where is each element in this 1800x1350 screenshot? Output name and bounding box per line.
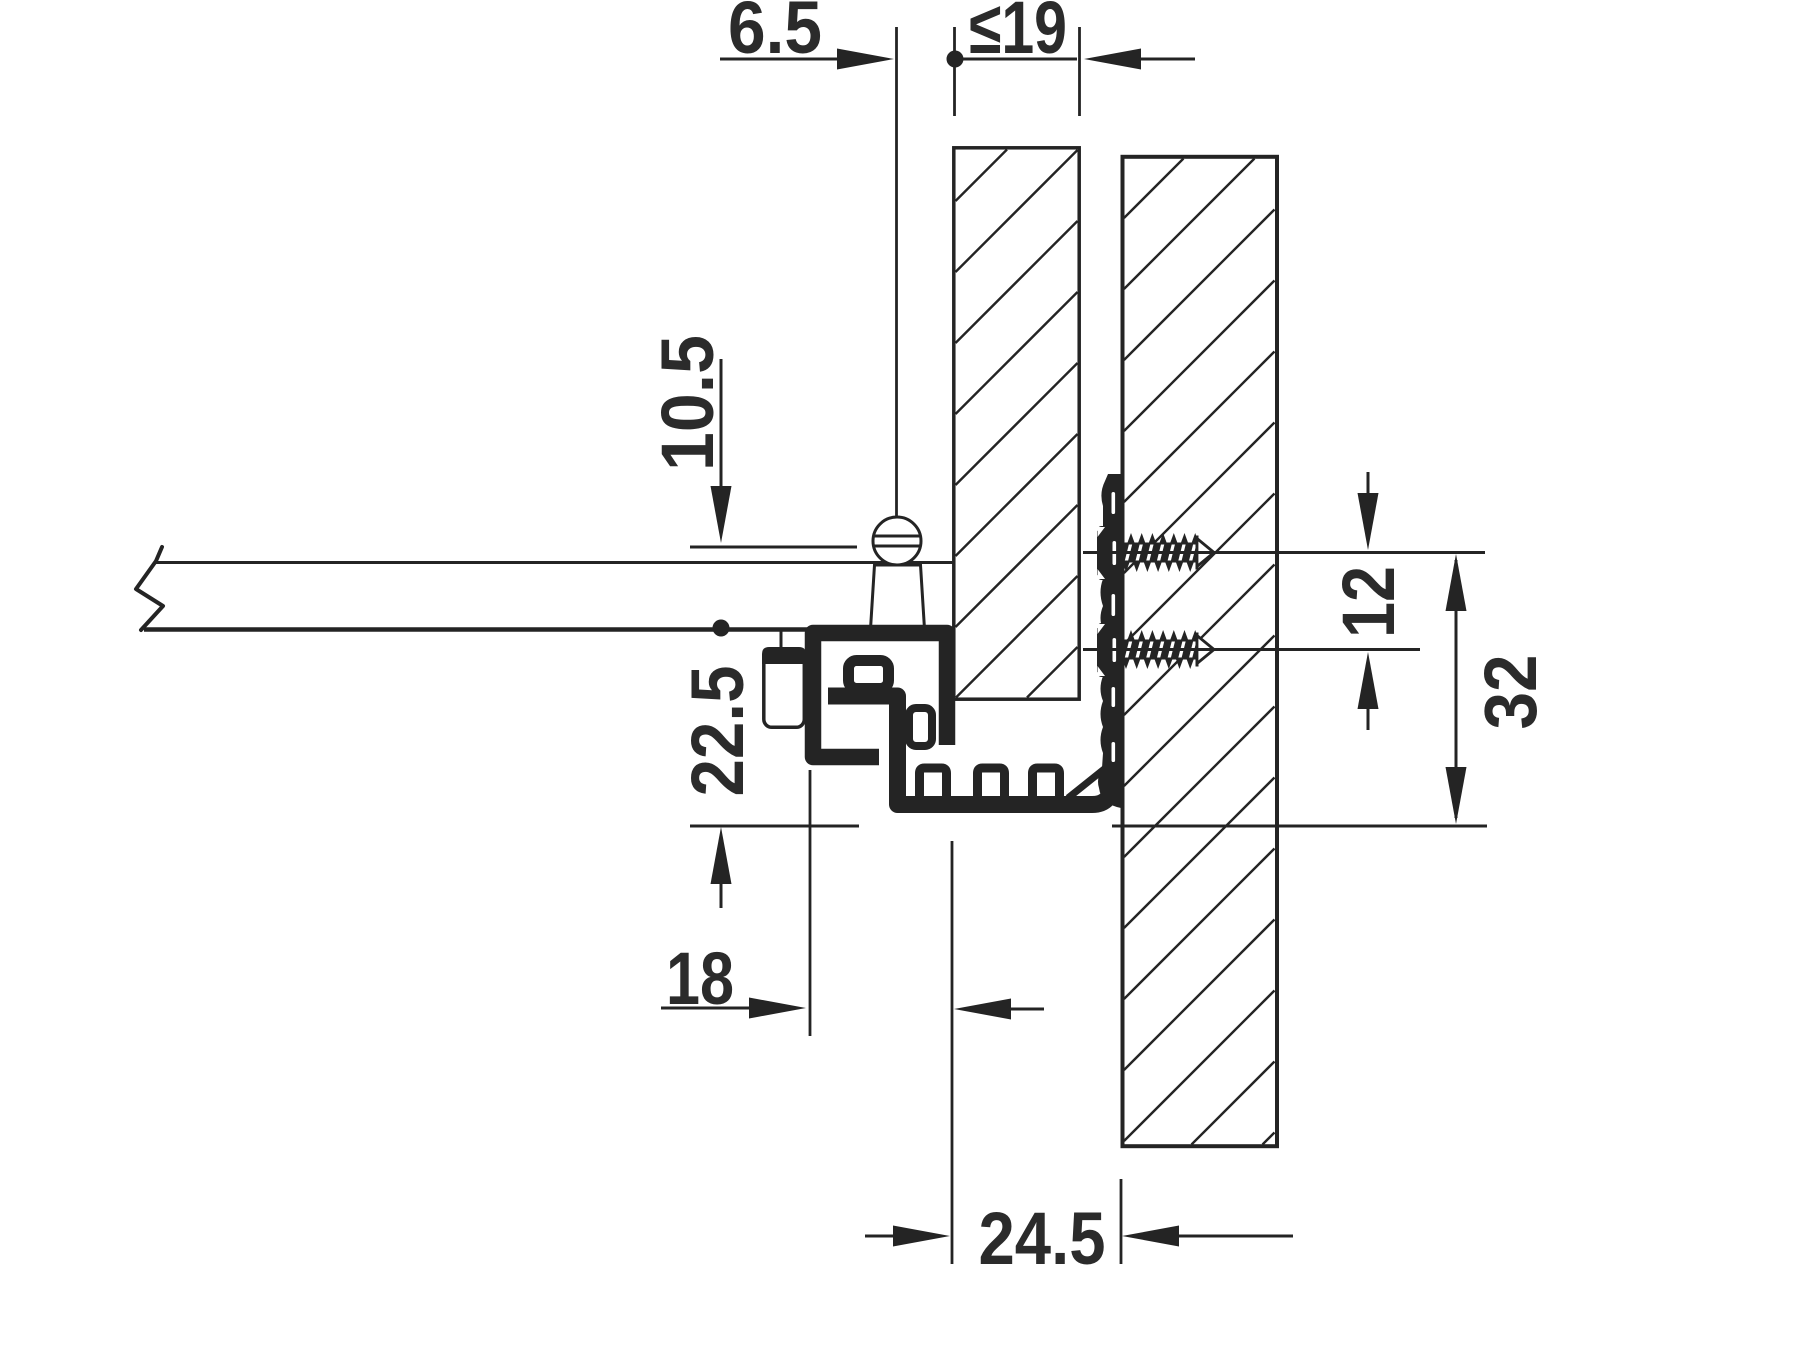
tick line for dim 10.5 xyxy=(690,546,857,549)
drawer slide profile: small square catch xyxy=(909,708,932,746)
dimension 12 xyxy=(1358,472,1379,730)
front clip hook cap xyxy=(762,647,806,664)
svg-text:12: 12 xyxy=(1327,566,1410,638)
svg-text:≤19: ≤19 xyxy=(969,0,1067,69)
bracket slits xyxy=(1112,492,1117,762)
svg-text:10.5: 10.5 xyxy=(646,335,729,471)
leader line profile bottom left segment xyxy=(690,825,859,828)
svg-text:22.5: 22.5 xyxy=(676,666,759,797)
leader line screw 1 / dim 12-32 top reference xyxy=(1083,551,1485,554)
front clip hook body xyxy=(764,649,805,728)
leader line profile bottom right segment xyxy=(1112,825,1487,828)
wire: drawer bottom panel bottom edge xyxy=(144,627,808,632)
dimension 18 arrows xyxy=(661,998,1044,1020)
dimension 6.5 xyxy=(720,49,894,70)
left wood panel (hatched, thickness ≤19) xyxy=(954,148,1079,699)
dimension 22.5 xyxy=(711,620,732,909)
ext line x952 below xyxy=(951,841,954,1264)
extension and centre lines xyxy=(810,27,1121,1264)
drawer slide profile: outer square frame xyxy=(813,633,947,757)
drawer slide profile: inner stub (rail hook) xyxy=(849,661,889,689)
leader line screw 2 / dim 12 bottom reference xyxy=(1083,648,1420,651)
screw 2 xyxy=(1122,630,1214,669)
svg-text:18: 18 xyxy=(666,937,734,1020)
shelf pin body xyxy=(871,565,925,629)
ext line panel right top xyxy=(1078,27,1081,116)
node A: break (zigzag) left end of drawer panel xyxy=(136,547,163,630)
screw 1 xyxy=(1122,533,1214,572)
dimension 10.5 xyxy=(711,359,732,543)
screw head 2 xyxy=(1098,623,1123,677)
screw head 1 xyxy=(1098,526,1123,580)
shelf pin head xyxy=(871,517,925,629)
pin centre line xyxy=(895,27,898,517)
svg-text:24.5: 24.5 xyxy=(979,1197,1106,1280)
drawer slide profile: lower tray (step + bottom channel) xyxy=(828,696,1112,805)
svg-text:32: 32 xyxy=(1469,655,1552,730)
wire: drawer bottom panel top edge xyxy=(155,561,953,564)
drawer slide profile: tooth 2 xyxy=(978,768,1005,798)
drawer slide profile: diagonal chamfer brace xyxy=(1068,766,1108,798)
wire: clip connector xyxy=(780,629,783,648)
drawer slide profile: tooth 1 xyxy=(920,768,947,798)
svg-text:6.5: 6.5 xyxy=(728,0,822,69)
dimension ≤19 xyxy=(947,49,1196,70)
dimension 24.5 xyxy=(865,1226,1293,1247)
ext line x810 (18 dim) xyxy=(809,770,812,1036)
dimension 32 xyxy=(1446,554,1467,824)
drawer slide profile: tooth 3 xyxy=(1033,768,1060,798)
ext line panel left top xyxy=(953,27,956,116)
mounting bracket strip on back panel xyxy=(1097,474,1121,808)
right wood panel (hatched, back wall) xyxy=(1123,157,1278,1146)
ext line x1121 bottom xyxy=(1120,1179,1123,1264)
